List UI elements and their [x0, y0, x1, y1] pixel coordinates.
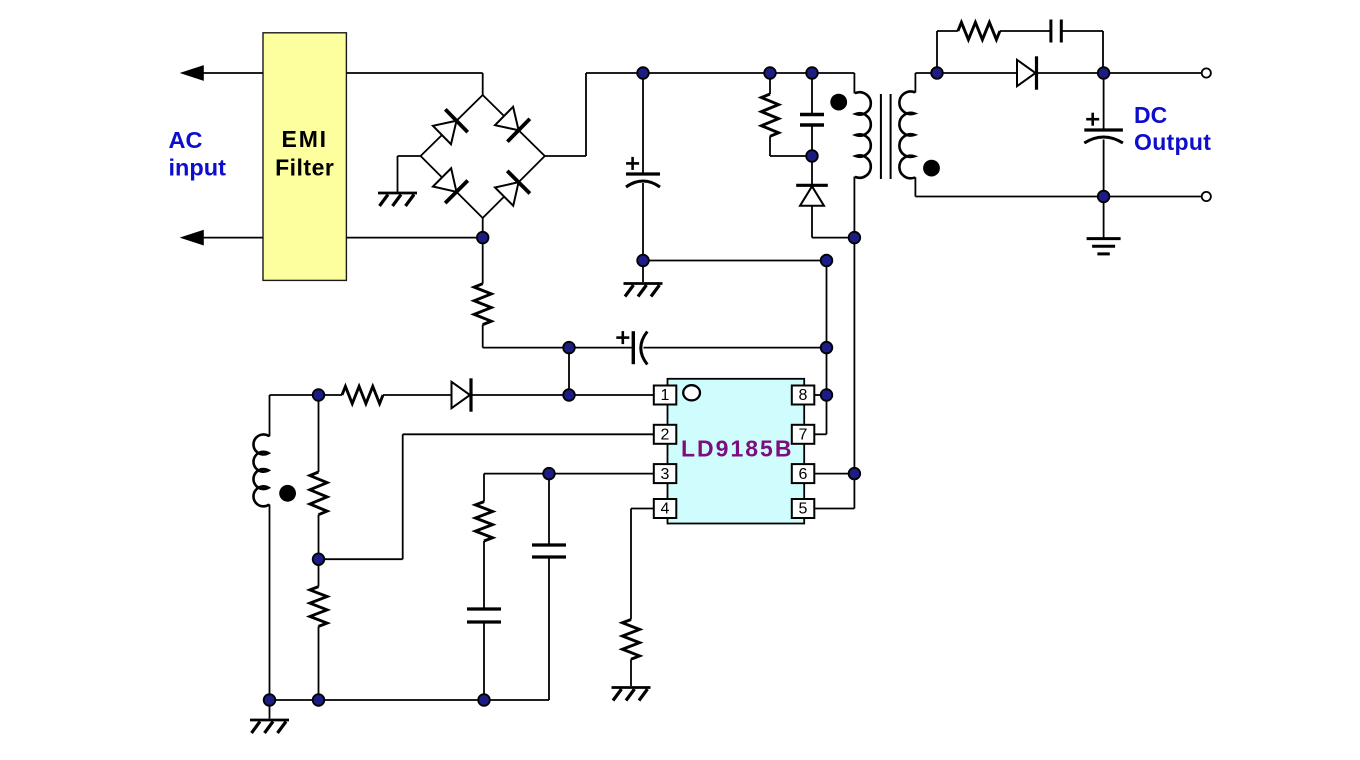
svg-text:AC: AC	[169, 127, 203, 153]
svg-text:7: 7	[799, 427, 808, 444]
svg-text:DC: DC	[1134, 102, 1167, 128]
svg-text:Output: Output	[1134, 129, 1211, 155]
svg-text:2: 2	[661, 427, 670, 444]
svg-text:EMI: EMI	[282, 126, 328, 152]
svg-text:3: 3	[661, 466, 670, 483]
svg-text:8: 8	[799, 387, 808, 404]
svg-text:input: input	[169, 154, 227, 180]
svg-text:5: 5	[799, 501, 808, 518]
svg-text:LD9185B: LD9185B	[681, 436, 793, 462]
svg-text:1: 1	[661, 387, 670, 404]
svg-text:4: 4	[661, 501, 670, 518]
svg-text:6: 6	[799, 466, 808, 483]
svg-text:Filter: Filter	[275, 155, 334, 181]
